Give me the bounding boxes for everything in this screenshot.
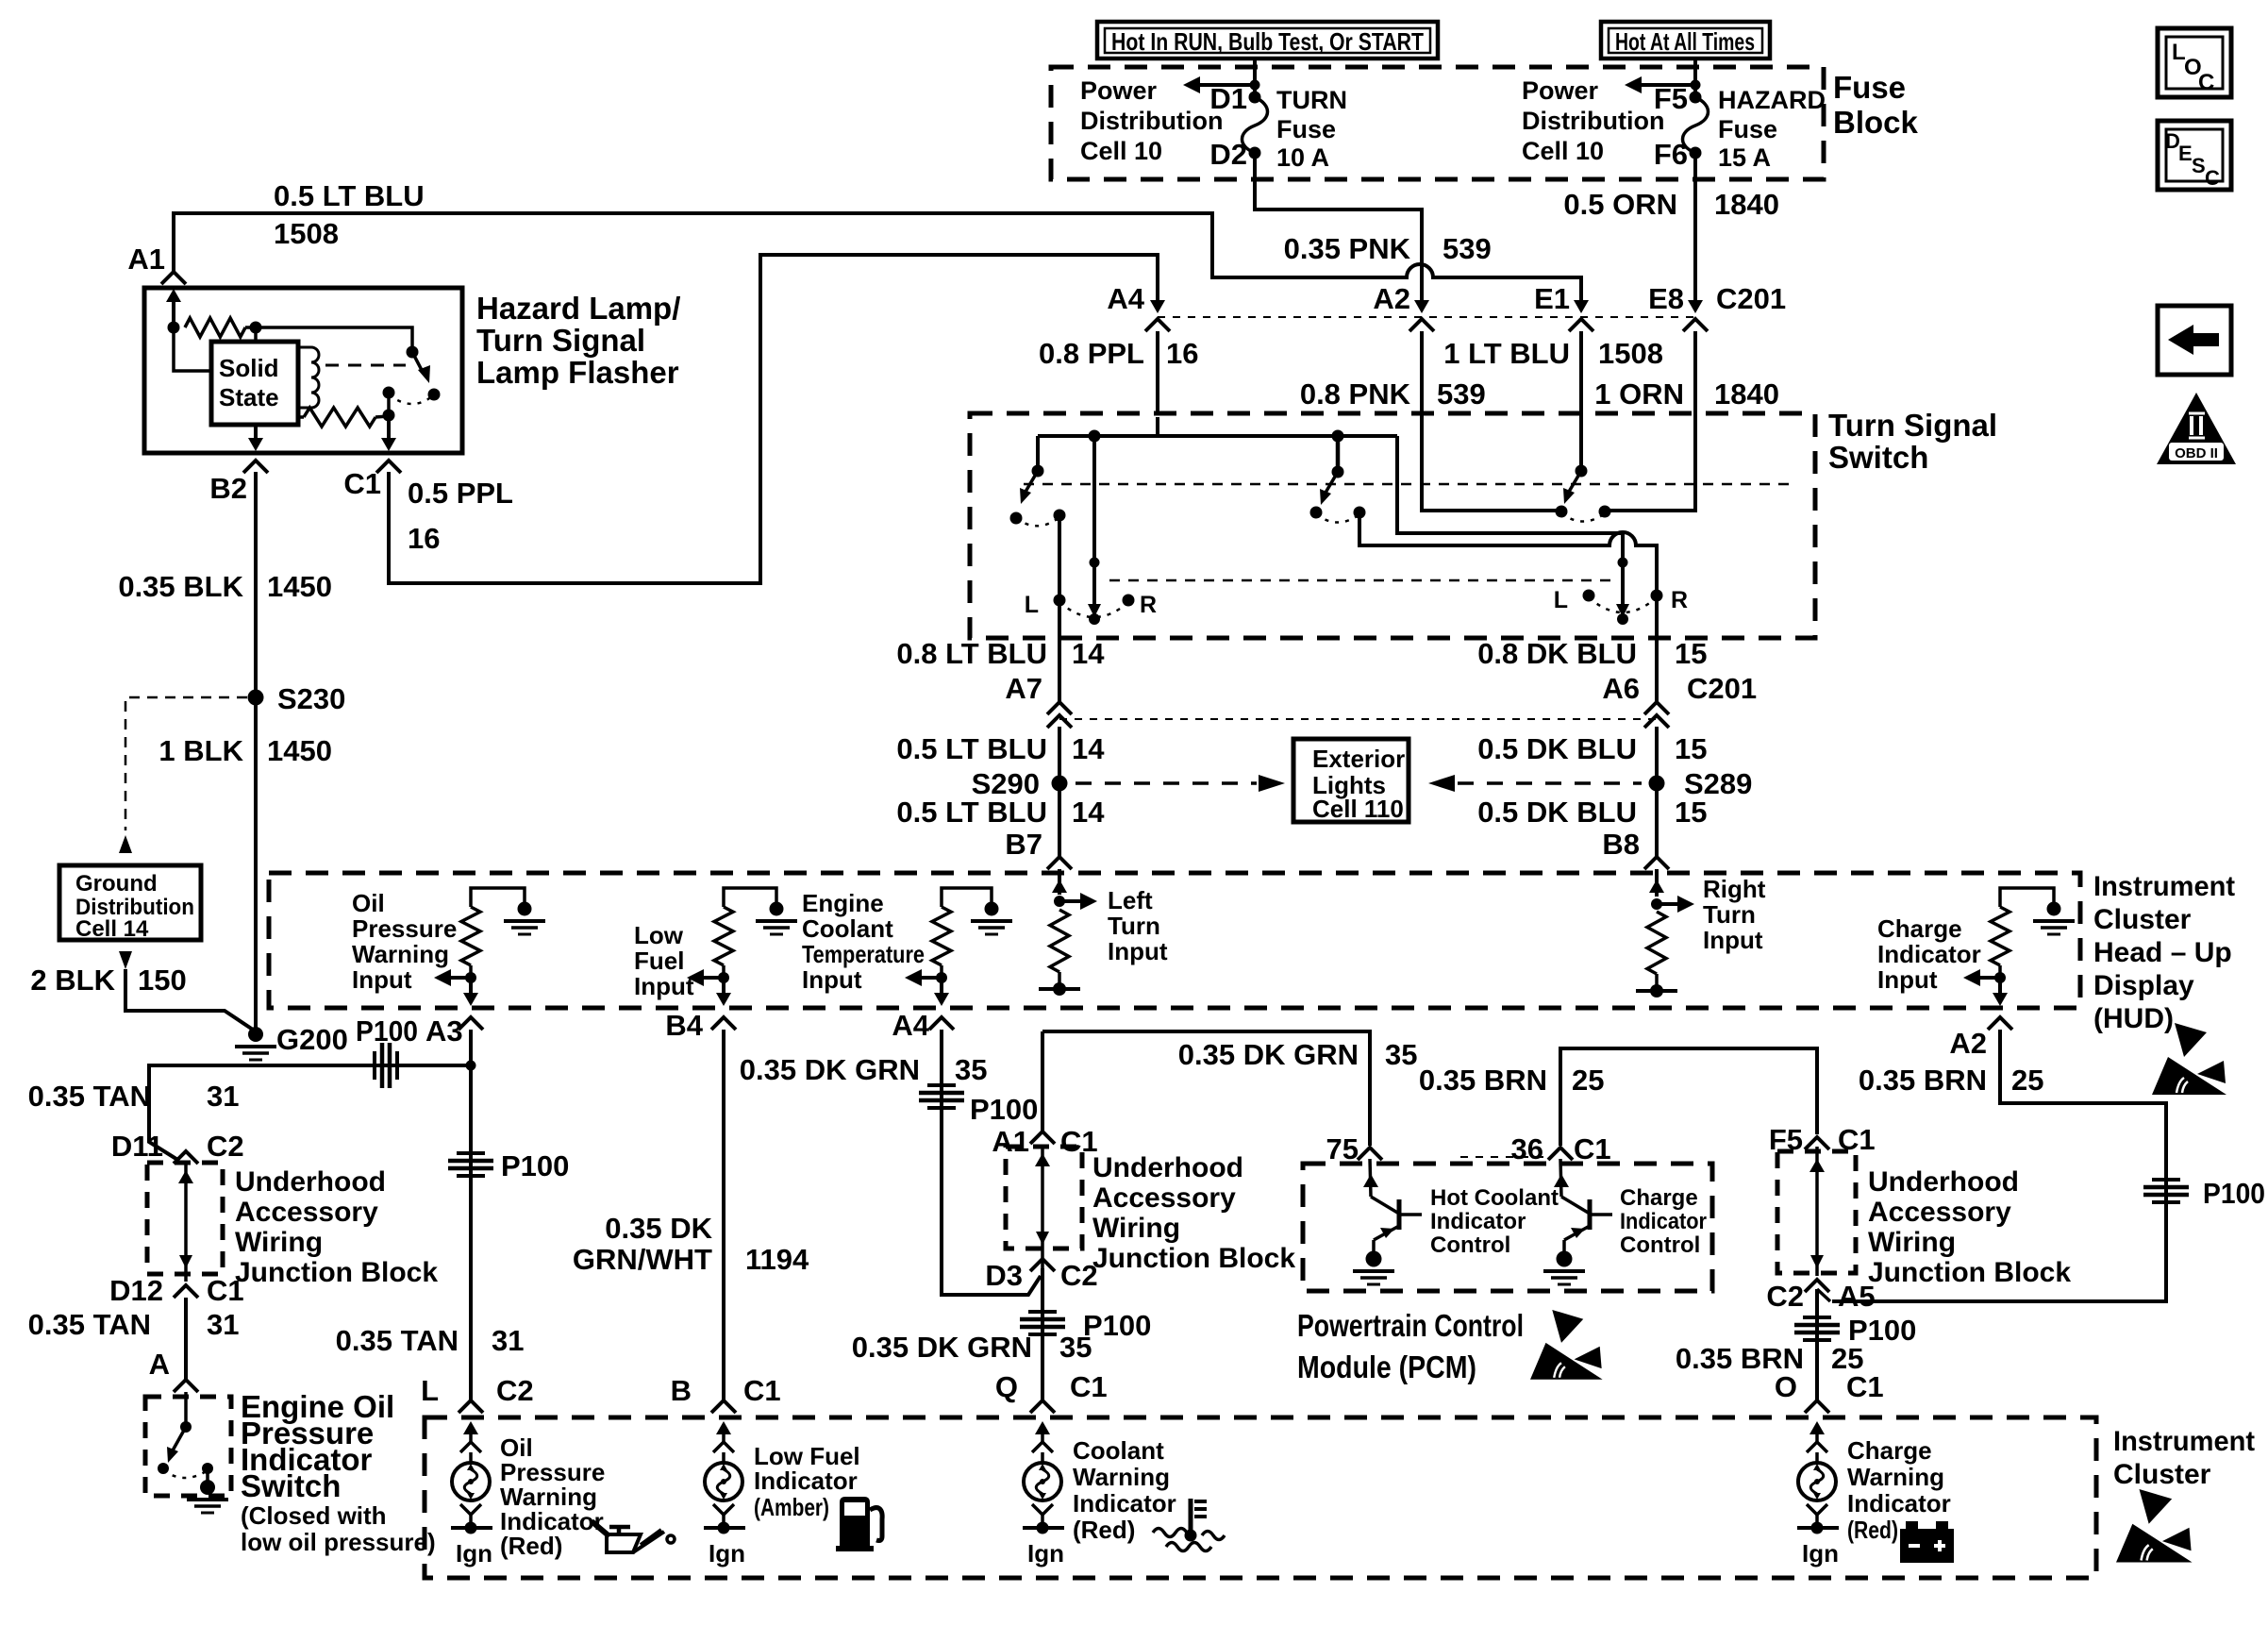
svg-text:0.5 DK BLU: 0.5 DK BLU (1477, 796, 1637, 829)
svg-text:0.35 BLK: 0.35 BLK (118, 570, 243, 603)
transistor hot coolant indicator control (1370, 1159, 1371, 1197)
svg-text:Wiring: Wiring (1092, 1213, 1180, 1244)
connector A (174, 1380, 198, 1392)
wire A1 to D3 (1041, 1147, 1044, 1268)
svg-text:25: 25 (1572, 1064, 1604, 1097)
svg-text:Warning: Warning (1847, 1463, 1944, 1491)
wire 0.35 TAN 31 from A3 (469, 1030, 473, 1400)
oil pressure warning indicator Ign feed (451, 1526, 492, 1530)
arrow to Power Distribution (right) (1691, 80, 1701, 91)
svg-text:L: L (421, 1374, 439, 1407)
svg-text:35: 35 (1059, 1331, 1092, 1364)
flasher dotted throw arc (389, 394, 432, 404)
svg-text:Input: Input (634, 972, 694, 1000)
svg-text:F6: F6 (1654, 138, 1688, 171)
Powertrain Control Module dashed box (1303, 1164, 1712, 1291)
wire from Hot In RUN into fuse D1 (1253, 59, 1257, 97)
Solid State box (211, 342, 298, 425)
wire R1 into Solid State top (254, 327, 258, 342)
wire 0.8 LT BLU 14 below switch (1058, 638, 1061, 702)
connector A3 (459, 1017, 483, 1030)
wire 0.35 TAN 31 to switch (184, 1298, 188, 1380)
wire 0.35 BRN 25 from HUD to PCM 36 (1560, 1048, 1817, 1146)
oil pressure warning input output arrows (465, 972, 476, 983)
svg-text:B2: B2 (209, 472, 247, 505)
svg-text:O: O (1775, 1370, 1797, 1403)
svg-text:Display: Display (2093, 970, 2194, 1001)
connector A2 (1420, 291, 1424, 304)
low fuel input ground (770, 902, 784, 916)
svg-text:Indicator: Indicator (1620, 1209, 1707, 1234)
switch pole 1 pivot (1036, 436, 1040, 471)
svg-text:Input: Input (352, 965, 412, 994)
pole 3 contacts (1556, 506, 1568, 518)
svg-text:TURN: TURN (1276, 86, 1347, 114)
connector A4 (1156, 291, 1159, 304)
svg-text:A: A (149, 1348, 170, 1381)
connector L C2 (459, 1400, 483, 1413)
svg-text:Module (PCM): Module (PCM) (1297, 1349, 1476, 1384)
svg-text:Lamp Flasher: Lamp Flasher (476, 355, 679, 390)
ground G200 (248, 1027, 263, 1042)
svg-text:0.5 PPL: 0.5 PPL (408, 477, 513, 510)
svg-text:Ign: Ign (1027, 1539, 1064, 1567)
svg-text:(Red): (Red) (1847, 1516, 1898, 1544)
charge warning indicator lamp column (1809, 1421, 1825, 1434)
svg-text:C1: C1 (343, 467, 381, 500)
engine coolant temperature input resistor (942, 888, 992, 907)
svg-text:C2: C2 (496, 1374, 534, 1407)
svg-text:A2: A2 (1949, 1027, 1987, 1060)
svg-text:D1: D1 (1209, 82, 1247, 115)
svg-text:Fuse: Fuse (1276, 115, 1336, 143)
svg-text:Power: Power (1522, 76, 1599, 105)
svg-text:Hot In RUN, Bulb Test, Or STAR: Hot In RUN, Bulb Test, Or START (1111, 27, 1424, 56)
svg-text:Hot Coolant: Hot Coolant (1430, 1185, 1559, 1211)
svg-text:0.35 DK GRN: 0.35 DK GRN (1178, 1038, 1359, 1071)
svg-text:0.5 LT BLU: 0.5 LT BLU (896, 796, 1047, 829)
svg-text:(Closed with: (Closed with (241, 1501, 387, 1530)
bottom-left R contact (1123, 595, 1135, 607)
wire A5 to O (1815, 1289, 1819, 1400)
svg-text:Switch: Switch (1828, 440, 1928, 475)
svg-text:Right: Right (1703, 875, 1766, 903)
wire PNK to pole3 left contact (1422, 417, 1561, 511)
svg-text:25: 25 (2011, 1064, 2043, 1097)
svg-text:C1: C1 (1574, 1132, 1611, 1165)
svg-text:1508: 1508 (274, 217, 339, 250)
connector D12 C1 (174, 1285, 198, 1298)
svg-text:D3: D3 (985, 1259, 1023, 1292)
wire 0.5 LT BLU 14 (1058, 727, 1061, 857)
connector A4 (HUD output) (929, 1017, 954, 1030)
Instrument Cluster Head-Up Display dashed box (269, 873, 2080, 1008)
svg-text:D12: D12 (109, 1274, 163, 1307)
svg-text:0.35 PNK: 0.35 PNK (1284, 232, 1411, 265)
svg-text:R: R (1671, 587, 1688, 613)
connector F5 C1 (1805, 1137, 1829, 1149)
svg-text:P100: P100 (501, 1149, 569, 1182)
Underhood Accessory Wiring Junction Block dashed box (left) (147, 1163, 223, 1274)
wire 0.8 DK BLU 15 below switch (1655, 638, 1659, 702)
low fuel indicator Ign feed (704, 1526, 745, 1530)
svg-text:Indicator: Indicator (754, 1467, 858, 1495)
wire 0.5 PPL 16: flasher C1 to connector A4 (389, 255, 1158, 583)
wire 0.8 PNK 539 below A2 (1420, 331, 1424, 417)
arrow below Ground Distribution (119, 951, 132, 969)
svg-text:Instrument: Instrument (2093, 871, 2235, 902)
connector A2 (HUD output) (1988, 1017, 2012, 1030)
Exterior Lights Cell 110 box (1293, 739, 1409, 822)
svg-text:0.35 DK: 0.35 DK (605, 1212, 712, 1245)
svg-text:E: E (2178, 142, 2193, 165)
svg-text:Head – Up: Head – Up (2093, 937, 2232, 968)
Hot In RUN box (1097, 22, 1438, 59)
flasher contact node (383, 410, 395, 422)
connector A6 (1644, 702, 1669, 714)
svg-text:0.8 PPL: 0.8 PPL (1039, 337, 1144, 370)
svg-text:Ign: Ign (1802, 1539, 1839, 1567)
charge indicator input resistor (2000, 888, 2054, 907)
svg-text:Ign: Ign (709, 1539, 745, 1567)
low fuel indicator lamp column (716, 1421, 731, 1434)
svg-text:Block: Block (1833, 105, 1919, 140)
svg-text:F5: F5 (1654, 82, 1688, 115)
wire D11 to D12 (184, 1163, 188, 1282)
svg-text:Control: Control (1620, 1232, 1700, 1258)
wire 0.5 ORN 1840: fuse F6 to connector E8 (1693, 153, 1697, 300)
Underhood Accessory Wiring Junction Block dashed box (middle) (1006, 1147, 1082, 1249)
svg-text:Ground: Ground (75, 871, 158, 897)
svg-text:Junction Block: Junction Block (1092, 1243, 1295, 1274)
connector 36 C1 (1548, 1148, 1573, 1160)
svg-text:P100: P100 (356, 1014, 418, 1048)
svg-text:B4: B4 (665, 1009, 703, 1042)
Hazard Lamp / Turn Signal Lamp Flasher box (144, 288, 462, 453)
flasher switch blade (407, 346, 419, 359)
fuel pump icon (836, 1497, 882, 1551)
svg-text:Pressure: Pressure (352, 914, 457, 943)
svg-text:A4: A4 (892, 1009, 929, 1042)
svg-text:Control: Control (1430, 1232, 1510, 1258)
svg-text:C201: C201 (1716, 282, 1786, 315)
dashed arrow S289 to Exterior Lights (1458, 781, 1642, 785)
svg-text:C1: C1 (207, 1274, 244, 1307)
svg-text:35: 35 (955, 1053, 987, 1086)
HAZARD Fuse 15A symbol F5-F6 (1690, 92, 1702, 104)
wire 1 BLK 1450 (254, 697, 258, 1032)
svg-text:0.35 TAN: 0.35 TAN (28, 1308, 151, 1341)
splice S289 (1649, 776, 1665, 792)
flasher linkage dashed (325, 364, 406, 367)
svg-text:A2: A2 (1373, 282, 1410, 315)
svg-text:A1: A1 (127, 243, 165, 276)
wire ORN to pole3 right contact (1605, 417, 1695, 511)
dashed arrow S290 to Exterior Lights (1076, 781, 1257, 785)
ESD symbol PCM (1530, 1310, 1603, 1380)
mechanical linkage lower dashed (1109, 579, 1613, 582)
svg-text:B8: B8 (1602, 828, 1640, 861)
Instrument Cluster dashed box (425, 1417, 2096, 1578)
wire 2 BLK 150 to G200 (125, 969, 256, 1031)
splice S290 (1052, 776, 1068, 792)
wire bus end to right selector feed (1397, 436, 1623, 562)
svg-text:0.5 ORN: 0.5 ORN (1563, 188, 1677, 221)
svg-text:1450: 1450 (267, 570, 332, 603)
svg-text:Accessory: Accessory (1092, 1182, 1236, 1214)
svg-text:Underhood: Underhood (1092, 1152, 1243, 1183)
svg-text:0.8 DK BLU: 0.8 DK BLU (1477, 637, 1637, 670)
bottom-right L contact (1583, 590, 1595, 602)
wire pole2 R contact to right selector (1359, 512, 1657, 638)
svg-text:L: L (1554, 587, 1568, 613)
charge indicator input output arrows (1994, 972, 2006, 983)
svg-text:C: C (2198, 70, 2214, 95)
svg-text:Input: Input (1703, 926, 1763, 954)
svg-text:1 LT BLU: 1 LT BLU (1443, 337, 1570, 370)
bottom-right throw arc (1589, 597, 1657, 612)
coolant warning indicator Ign feed (1023, 1526, 1064, 1530)
svg-text:S230: S230 (277, 682, 345, 715)
mechanical linkage upper dashed (1024, 483, 1797, 486)
svg-text:Powertrain Control: Powertrain Control (1297, 1308, 1524, 1343)
wire 0.8 PPL 16 below A4 (1156, 331, 1159, 415)
OBD II symbol (2157, 393, 2236, 464)
flasher relay coil (298, 347, 311, 408)
back-arrow legend box (2158, 306, 2231, 375)
svg-text:16: 16 (408, 522, 440, 555)
svg-text:Charge: Charge (1847, 1436, 1932, 1465)
Ground Distribution Cell 14 box (59, 865, 201, 940)
wire F5 to C2 (1815, 1147, 1819, 1276)
svg-text:P100: P100 (1083, 1309, 1151, 1342)
connector D3 C2 (1030, 1259, 1055, 1271)
svg-text:Low: Low (634, 921, 684, 949)
svg-text:HAZARD: HAZARD (1718, 86, 1826, 114)
svg-text:1 ORN: 1 ORN (1594, 377, 1684, 411)
Turn Signal Switch dashed box (970, 413, 1815, 638)
flasher input arrow from A1 (172, 300, 175, 327)
wire 0.35 BRN 25 from A2 (1832, 1030, 2166, 1301)
svg-text:0.35 BRN: 0.35 BRN (1419, 1064, 1547, 1097)
flasher switch contact (428, 389, 441, 401)
svg-text:Instrument: Instrument (2113, 1426, 2255, 1457)
svg-text:0.8 LT BLU: 0.8 LT BLU (896, 637, 1047, 670)
connector E1 (1579, 291, 1583, 304)
oil pressure switch (184, 1392, 188, 1427)
svg-text:150: 150 (138, 964, 187, 997)
DESC legend box (2158, 121, 2231, 190)
bottom-left L contact (1054, 595, 1066, 607)
svg-text:D2: D2 (1209, 138, 1247, 171)
wire pole1 output down to A7 (1058, 515, 1061, 638)
svg-text:B: B (671, 1374, 692, 1407)
wire left feed into Solid State (174, 327, 211, 371)
svg-text:Solid: Solid (219, 354, 279, 382)
svg-text:Charge: Charge (1877, 914, 1962, 943)
switch pole 2 pivot (1332, 430, 1344, 443)
svg-text:Input: Input (1108, 937, 1168, 965)
svg-text:Engine: Engine (802, 889, 884, 917)
svg-text:31: 31 (207, 1308, 239, 1341)
connector A1 C1 (1030, 1131, 1055, 1144)
connector B4 (711, 1017, 736, 1030)
wire 0.35 DK GRN/WHT 1194 (722, 1030, 725, 1400)
Fuse Block dashed box (1051, 67, 1824, 179)
wire 0.5 DK BLU 15 (1655, 727, 1659, 857)
connector P100 inline (927, 1083, 956, 1087)
svg-text:L: L (1025, 592, 1039, 618)
connector line C201 dashed (1059, 718, 1657, 720)
wire 1 ORN 1840 below E8 (1693, 331, 1697, 417)
battery icon (1900, 1521, 1954, 1563)
TURN Fuse 10A symbol D1-D2 (1249, 92, 1261, 104)
svg-text:Ign: Ign (456, 1539, 492, 1567)
engine coolant temperature input ground (985, 902, 999, 916)
right turn input column (1655, 869, 1659, 897)
switch pole 3 pivot from E1 (1579, 417, 1583, 471)
left turn input column (1058, 869, 1061, 895)
svg-text:E8: E8 (1648, 282, 1684, 315)
svg-text:C2: C2 (1766, 1280, 1804, 1313)
flasher resistor R1 (168, 322, 180, 334)
wire D3 to Q (1041, 1268, 1044, 1400)
svg-text:Underhood: Underhood (235, 1166, 386, 1198)
oil pressure warning input ground (518, 902, 532, 916)
svg-text:C: C (2205, 166, 2220, 190)
connector row C201 dashed line (1158, 316, 1695, 318)
svg-text:S: S (2192, 154, 2206, 177)
bottom-right R contact (1651, 590, 1663, 602)
wire R1 to switch pivot (256, 327, 412, 352)
connector 75 (1358, 1148, 1382, 1160)
svg-text:Indicator: Indicator (1847, 1489, 1951, 1517)
wire 0.35 DK GRN 35 horizontal to PCM 75 (1042, 1031, 1370, 1146)
svg-text:P100: P100 (970, 1093, 1038, 1126)
charge warning indicator Ign feed (1797, 1526, 1839, 1530)
svg-text:C201: C201 (1687, 672, 1757, 705)
svg-text:1 BLK: 1 BLK (158, 734, 243, 767)
bus junction branch down (1089, 430, 1101, 443)
svg-text:1508: 1508 (1598, 337, 1663, 370)
connector A1 (161, 272, 186, 284)
svg-text:Distribution: Distribution (1080, 107, 1223, 135)
svg-text:Cell 10: Cell 10 (1080, 137, 1162, 165)
connector A7 (1047, 702, 1072, 714)
svg-text:31: 31 (207, 1080, 239, 1113)
transistor charge indicator control (1560, 1159, 1561, 1197)
svg-text:1194: 1194 (745, 1243, 809, 1276)
svg-text:Input: Input (1877, 965, 1938, 994)
svg-text:C2: C2 (1060, 1259, 1098, 1292)
wire from Hot At All Times into fuse F5 (1693, 59, 1697, 97)
switch feed bus (1038, 434, 1397, 438)
svg-text:15: 15 (1675, 637, 1707, 670)
svg-text:15: 15 (1675, 796, 1707, 829)
wire A4 feed to bus (1156, 417, 1159, 436)
svg-text:C1: C1 (743, 1374, 781, 1407)
wire A1 junction feed (1041, 1031, 1044, 1131)
ESD symbol cluster (2116, 1489, 2193, 1563)
wire 1 LT BLU 1508 below E1 (1579, 331, 1583, 417)
svg-text:1840: 1840 (1714, 188, 1779, 221)
svg-text:Fuse: Fuse (1833, 70, 1906, 105)
svg-text:Junction Block: Junction Block (235, 1257, 438, 1288)
svg-text:Oil: Oil (352, 889, 385, 917)
svg-text:Junction Block: Junction Block (1868, 1257, 2071, 1288)
svg-text:Hazard Lamp/: Hazard Lamp/ (476, 291, 680, 326)
oil pressure warning input resistor (471, 888, 525, 907)
wire branch to D11 (149, 1065, 471, 1161)
svg-text:35: 35 (1385, 1038, 1417, 1071)
connector P100 inline (373, 1051, 376, 1080)
svg-text:A5: A5 (1838, 1280, 1876, 1313)
svg-text:14: 14 (1072, 732, 1105, 765)
svg-text:Underhood: Underhood (1868, 1166, 2019, 1198)
svg-text:B7: B7 (1005, 828, 1042, 861)
svg-text:0.5 LT BLU: 0.5 LT BLU (896, 732, 1047, 765)
coolant warning indicator lamp column (1035, 1421, 1050, 1434)
connector P100 inline (1803, 1316, 1831, 1319)
svg-text:Wiring: Wiring (235, 1227, 323, 1258)
svg-text:A6: A6 (1602, 672, 1640, 705)
svg-text:Cell 110: Cell 110 (1312, 795, 1404, 823)
svg-text:0.35 BRN: 0.35 BRN (1859, 1064, 1987, 1097)
svg-text:OBD II: OBD II (2175, 445, 2218, 461)
svg-text:A3: A3 (425, 1014, 463, 1048)
svg-text:75: 75 (1326, 1132, 1359, 1165)
svg-text:C1: C1 (1846, 1370, 1884, 1403)
connector B2 (243, 461, 268, 473)
svg-text:Input: Input (802, 965, 862, 994)
oil can icon (592, 1521, 675, 1552)
Underhood Accessory Wiring Junction Block dashed box (right) (1777, 1151, 1856, 1273)
connector Q C1 (1030, 1400, 1055, 1413)
svg-text:Turn: Turn (1703, 900, 1756, 929)
svg-text:2 BLK: 2 BLK (30, 964, 115, 997)
svg-text:E1: E1 (1534, 282, 1570, 315)
connector B7 (1047, 857, 1072, 869)
svg-text:16: 16 (1166, 337, 1198, 370)
svg-text:Turn Signal: Turn Signal (1828, 408, 1997, 443)
svg-text:0.35 DK GRN: 0.35 DK GRN (740, 1053, 920, 1086)
svg-text:Turn: Turn (1108, 912, 1160, 940)
svg-text:14: 14 (1072, 637, 1105, 670)
svg-text:10 A: 10 A (1276, 143, 1329, 172)
svg-text:15: 15 (1675, 732, 1707, 765)
connector P100 on 0.35 TAN (457, 1151, 485, 1155)
svg-text:GRN/WHT: GRN/WHT (573, 1243, 712, 1276)
svg-text:(Amber): (Amber) (754, 1493, 829, 1521)
svg-text:(Red): (Red) (500, 1532, 562, 1560)
svg-text:low oil pressure): low oil pressure) (241, 1528, 436, 1556)
coolant temperature icon (1153, 1499, 1225, 1551)
low fuel input resistor (724, 888, 776, 907)
svg-text:Cell 14: Cell 14 (75, 916, 149, 942)
svg-text:Indicator: Indicator (1073, 1489, 1176, 1517)
svg-text:Warning: Warning (352, 940, 449, 968)
svg-text:Accessory: Accessory (1868, 1197, 2011, 1228)
svg-text:(Red): (Red) (1073, 1516, 1135, 1544)
low fuel input output arrows (718, 972, 729, 983)
engine coolant temperature input output arrows (936, 972, 947, 983)
svg-text:Exterior: Exterior (1312, 745, 1405, 773)
flasher output arrows B2 C1 (254, 425, 258, 438)
pole 2 contacts (1310, 507, 1323, 519)
svg-text:A4: A4 (1107, 282, 1144, 315)
svg-text:539: 539 (1443, 232, 1492, 265)
svg-text:Left: Left (1108, 886, 1153, 914)
